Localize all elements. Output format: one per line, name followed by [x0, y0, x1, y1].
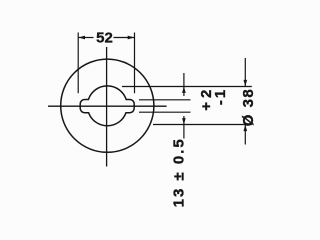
dim 52: right extension line: [134, 33, 136, 94]
dim 13±0.5: lower dimension line segment: [183, 116, 185, 139]
extension line from lug top edge: [139, 99, 191, 101]
dim Ø38: lower arrow (points up to line y124.5): [244, 125, 248, 132]
dim 52: right arrow: [128, 36, 135, 40]
extension line from lug bottom edge: [139, 111, 191, 113]
dim 13±0.5: upper dimension line segment: [183, 73, 185, 96]
dim 52: left arrow: [79, 36, 86, 40]
dim Ø38: upper dimension line: [244, 58, 246, 87]
dim 52: dimension line right segment: [114, 37, 135, 39]
horizontal centerline: [48, 105, 167, 107]
inner slot-and-boss contour: [80, 86, 134, 126]
vertical centerline: [106, 47, 108, 167]
svg-text:52: 52: [96, 30, 113, 47]
dim 13±0.5: lower arrow (points down to line y124.5): [182, 118, 186, 125]
dim Ø38: upper arrow (points down to line y86.5): [244, 80, 248, 87]
svg-text:Ø 38: Ø 38: [240, 88, 257, 127]
dim Ø38: lower dimension line: [244, 125, 246, 145]
dim 52: dimension line left segment: [78, 37, 93, 39]
dim 52: left extension line: [77, 33, 79, 94]
extension line from boss bottom (y 124.5): [153, 124, 252, 126]
outer circle (cap shell): [61, 59, 154, 152]
svg-text:-1: -1: [212, 88, 229, 105]
dim 13±0.5: upper arrow (points up to line y86.5): [182, 86, 186, 93]
svg-text:13 ± 0.5: 13 ± 0.5: [171, 137, 188, 207]
extension line from boss top (y 86.5): [122, 86, 252, 88]
